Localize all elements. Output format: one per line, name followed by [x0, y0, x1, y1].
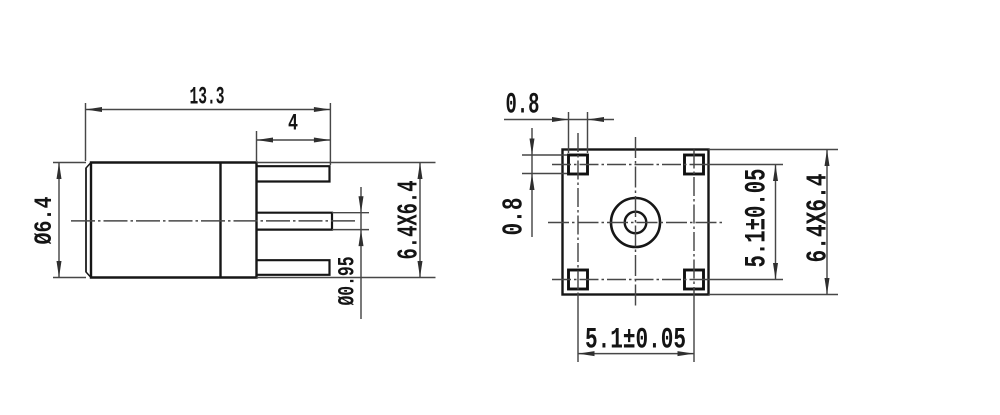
svg-text:5.1±0.05: 5.1±0.05 — [585, 324, 686, 358]
body chamfered left edge — [86, 163, 91, 278]
flange square — [563, 150, 709, 295]
dimension 6.4X6.4 (left view) — [257, 163, 436, 278]
dimension 6.4X6.4 (right view) — [709, 150, 839, 295]
pin pad top-left — [569, 155, 588, 174]
svg-text:4: 4 — [288, 110, 298, 137]
center conductor outer circle — [611, 198, 660, 247]
dimension 5.1 +/-0.05 (right) — [709, 165, 784, 280]
svg-text:0.8: 0.8 — [498, 198, 531, 236]
pin row centerline top — [552, 164, 710, 166]
crosshair vertical centerline — [635, 137, 637, 307]
body step line — [219, 163, 221, 278]
dimension 5.1 +/-0.05 (bottom) — [578, 295, 694, 363]
pin row centerline bottom — [552, 279, 710, 281]
pin pad top-right — [685, 155, 704, 174]
dimension 4 — [257, 131, 331, 161]
pin pad bottom-left — [569, 270, 588, 289]
pin column centerline right — [693, 150, 695, 295]
svg-text:6.4X6.4: 6.4X6.4 — [802, 174, 835, 263]
svg-text:Ø0.95: Ø0.95 — [335, 257, 361, 306]
svg-text:5.1±0.05: 5.1±0.05 — [741, 169, 775, 268]
center conductor inner circle — [625, 212, 647, 234]
centerline — [71, 220, 357, 222]
dimension 13.3 — [86, 103, 331, 165]
svg-text:13.3: 13.3 — [190, 83, 225, 112]
dimension 0.8 (top) — [504, 112, 614, 153]
svg-text:Ø6.4: Ø6.4 — [30, 197, 59, 245]
pin pad bottom-right — [685, 270, 704, 289]
dimension diameter 0.95 (center pin) — [332, 187, 369, 319]
svg-text:6.4X6.4: 6.4X6.4 — [393, 181, 426, 260]
bottom pin — [257, 260, 330, 275]
connector body outline — [91, 163, 257, 278]
crosshair horizontal centerline — [548, 222, 723, 224]
top pin — [257, 166, 330, 181]
dimension 0.8 (left) — [522, 128, 567, 237]
svg-text:0.8: 0.8 — [506, 89, 540, 123]
dimension diameter 6.4 (left) — [53, 163, 86, 278]
pin column centerline left — [577, 133, 579, 295]
center pin — [257, 213, 333, 230]
